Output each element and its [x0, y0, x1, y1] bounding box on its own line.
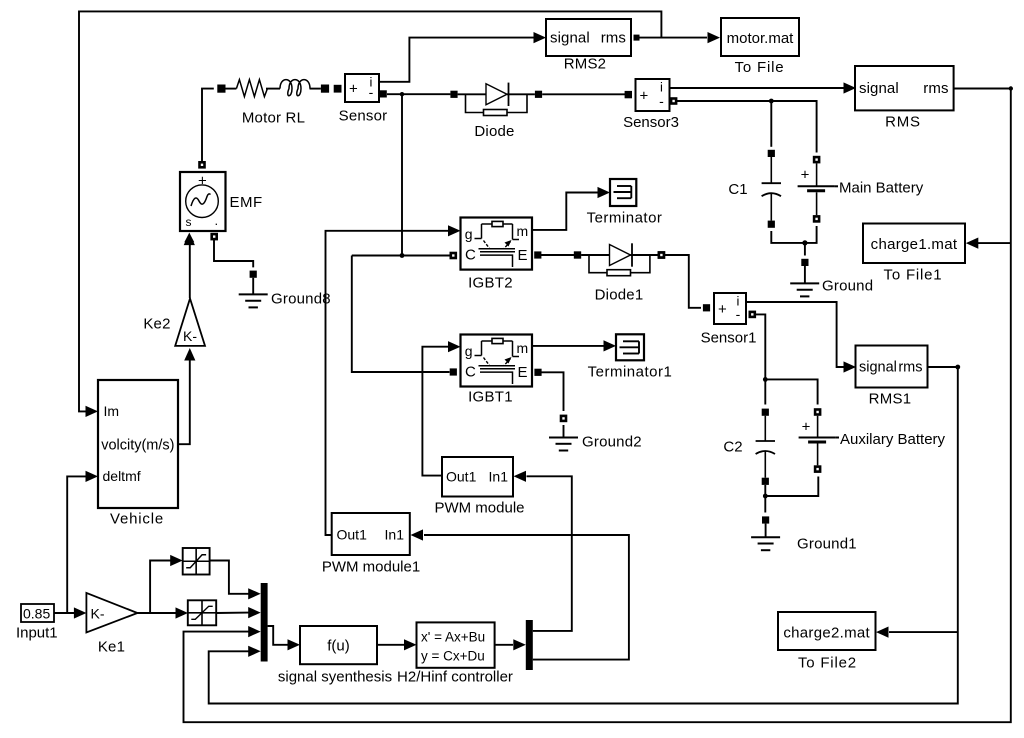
saturation block 1	[188, 600, 216, 625]
svg-text:C: C	[465, 247, 476, 264]
wire C1 bottom / Main Battery bottom to Ground node	[771, 226, 816, 256]
svg-text:Diode: Diode	[474, 123, 514, 140]
svg-text:x' = Ax+Bu: x' = Ax+Bu	[421, 630, 485, 645]
block Sensor3 (current sensor)	[623, 79, 679, 131]
svg-text:Ke1: Ke1	[98, 639, 125, 656]
wire PWM module1 Out1 up to IGBT2 gate	[326, 225, 461, 535]
wire Ke1 output to Saturations	[137, 555, 188, 619]
wire H2/Hinf controller output to demux	[495, 639, 526, 650]
block RMS1 (signal rms)	[856, 346, 928, 408]
wire RMS2 output to motor.mat To File input	[637, 32, 720, 43]
svg-text:IGBT1: IGBT1	[468, 389, 513, 406]
block Vehicle subsystem	[98, 380, 178, 528]
svg-text:Sensor: Sensor	[339, 108, 388, 125]
capacitor C1	[728, 150, 781, 228]
svg-text:motor.mat: motor.mat	[727, 30, 795, 47]
transistor block IGBT2	[461, 218, 533, 292]
block H2/Hinf controller (state-space)	[397, 622, 513, 685]
constant Input1 (0.85)	[16, 604, 58, 641]
svg-text:g: g	[465, 343, 473, 359]
wire Sensor i output to RMS2 input	[379, 32, 546, 82]
svg-text:RMS1: RMS1	[869, 391, 912, 408]
svg-text:rms: rms	[923, 80, 948, 97]
svg-text:EMF: EMF	[230, 194, 263, 211]
wire Sensor1 minus output down to C2 / Auxilary Battery	[749, 311, 818, 405]
svg-text:rms: rms	[898, 360, 922, 376]
svg-text:Ground8: Ground8	[271, 291, 331, 308]
svg-text:+: +	[640, 88, 649, 105]
wire Diode1 output to Sensor1 input	[658, 251, 711, 311]
wire demux output 1 to PWM module In1	[514, 471, 572, 631]
svg-text:PWM module: PWM module	[434, 500, 524, 517]
svg-text:Ground1: Ground1	[797, 536, 857, 553]
svg-text:K-: K-	[91, 605, 105, 621]
svg-text:m: m	[517, 223, 529, 239]
svg-text:-: -	[659, 93, 664, 109]
svg-text:.: .	[215, 213, 219, 228]
svg-text:H2/Hinf controller: H2/Hinf controller	[397, 669, 513, 686]
svg-text:Ground2: Ground2	[582, 434, 642, 451]
svg-text:C2: C2	[723, 439, 742, 456]
block signal syenthesis f(u)	[278, 626, 392, 686]
block To File1 charge1.mat	[863, 224, 965, 284]
svg-text:-: -	[369, 84, 374, 100]
block Sensor (current sensor)	[334, 74, 388, 125]
svg-text:Ke2: Ke2	[143, 316, 170, 333]
block Terminator1	[588, 334, 673, 380]
wire Sensor3 minus output to C1 and Main Battery tops	[677, 99, 817, 153]
svg-text:Main Battery: Main Battery	[839, 180, 924, 197]
svg-text:charge2.mat: charge2.mat	[783, 624, 870, 641]
wire Vehicle velocity output to Ke2 input	[178, 348, 195, 444]
svg-text:+: +	[349, 81, 358, 98]
svg-text:PWM module1: PWM module1	[322, 559, 420, 576]
wire RMS1 output right and down (battery feedback)	[209, 365, 960, 704]
wire Diode output to Sensor3 input	[542, 93, 631, 95]
svg-text:Vehicle: Vehicle	[110, 511, 164, 528]
source EMF (controlled voltage source)	[180, 161, 263, 242]
wire RMS output right and down (right feedback)	[184, 86, 1014, 722]
wire branch into charge2.mat To File2	[876, 627, 958, 638]
mux Mux (bar)	[261, 583, 268, 662]
svg-text:RMS2: RMS2	[564, 56, 606, 73]
transistor block IGBT1	[461, 335, 533, 406]
block RMS2 (signal rms)	[546, 19, 640, 73]
svg-text:Sensor3: Sensor3	[623, 114, 679, 131]
svg-text:Im: Im	[104, 403, 120, 419]
svg-text:Ground: Ground	[822, 278, 873, 295]
ground Ground8	[239, 291, 331, 308]
svg-text:To File: To File	[735, 59, 785, 76]
ground Ground (main)	[790, 259, 873, 297]
wire Sensor minus output to Diode	[380, 90, 451, 97]
svg-text:rms: rms	[601, 30, 626, 47]
svg-text:Motor RL: Motor RL	[242, 110, 305, 127]
resistor+inductor Motor RL	[217, 80, 329, 127]
svg-text:Out1: Out1	[446, 469, 477, 485]
capacitor C2	[723, 409, 775, 485]
svg-text:signal: signal	[550, 30, 590, 47]
ground Ground2	[549, 434, 642, 451]
wire C2 bottom / Auxilary Battery bottom to Ground1 node	[762, 477, 818, 538]
wire f(u) output to H2/Hinf controller	[377, 639, 417, 650]
wire Sensor3 i output to RMS input	[670, 82, 857, 93]
wire branch into charge1.mat To File1	[966, 238, 1011, 249]
gain Ke2 (triangle)	[143, 299, 205, 346]
svg-text:+: +	[801, 167, 810, 184]
svg-text:Terminator1: Terminator1	[588, 364, 673, 381]
wire junction to top feedback into Vehicle Im input	[79, 11, 661, 417]
svg-text:charge1.mat: charge1.mat	[871, 236, 958, 253]
svg-text:signal: signal	[859, 360, 897, 376]
svg-text:+: +	[802, 419, 811, 436]
svg-text:E: E	[518, 364, 528, 381]
wire Saturation output to Mux input 1	[210, 561, 261, 600]
wire EMF top port up to Motor RL	[202, 89, 214, 161]
block Sensor1 (current sensor)	[701, 293, 757, 347]
block PWM module (Out1 In1)	[434, 457, 524, 517]
svg-text:Sensor1: Sensor1	[701, 330, 757, 347]
wire Ke2 output to EMF input	[184, 233, 195, 298]
ground Ground1	[751, 536, 857, 553]
svg-text:E: E	[518, 247, 528, 264]
diode Diode with snubber	[450, 83, 542, 140]
wire IGBT1 E to Ground2	[534, 369, 567, 438]
svg-text:s: s	[186, 215, 192, 229]
svg-text:C: C	[465, 364, 476, 381]
wire Saturation1 output to Mux input 2	[216, 607, 261, 618]
wire demux output 2 to PWM module1 In1	[411, 529, 629, 659]
block To File motor.mat	[721, 18, 799, 76]
wire IGBT1 m output to Terminator1	[532, 340, 616, 351]
wire IGBT2 E to Diode1	[534, 251, 581, 258]
wire IGBT2 m output to Terminator	[532, 187, 610, 230]
wire Sensor1 i output to RMS1 input	[746, 302, 856, 373]
svg-text:deltmf: deltmf	[103, 468, 141, 484]
svg-text:To File1: To File1	[884, 267, 943, 284]
svg-text:-: -	[736, 306, 741, 322]
svg-text:To File2: To File2	[798, 654, 857, 671]
svg-text:Auxilary Battery: Auxilary Battery	[840, 431, 946, 448]
svg-text:f(u): f(u)	[327, 638, 350, 655]
svg-text:+: +	[198, 173, 207, 190]
battery Main Battery	[798, 156, 924, 223]
gain Ke1 (triangle)	[86, 593, 137, 656]
demux Demux (bar)	[526, 620, 533, 670]
diode Diode1 with snubber	[574, 243, 665, 303]
block Terminator	[587, 179, 663, 227]
wire Input1 to Ke1 with branch to Vehicle deltmf	[54, 471, 98, 619]
svg-text:+: +	[718, 301, 727, 318]
svg-text:Terminator: Terminator	[587, 210, 663, 227]
saturation block	[183, 548, 210, 575]
svg-text:0.85: 0.85	[23, 605, 50, 621]
svg-text:y = Cx+Du: y = Cx+Du	[421, 649, 485, 664]
wire Mux output to signal syenthesis f(u)	[268, 626, 300, 650]
svg-text:Input1: Input1	[16, 624, 58, 641]
svg-text:IGBT2: IGBT2	[468, 275, 513, 292]
svg-text:signal: signal	[859, 80, 899, 97]
svg-text:Diode1: Diode1	[595, 287, 644, 304]
wire node row to IGBT2 C and IGBT1 C	[352, 252, 457, 376]
block RMS (signal rms)	[855, 66, 954, 131]
svg-text:K-: K-	[183, 328, 197, 344]
block To File2 charge2.mat	[778, 612, 876, 671]
svg-text:In1: In1	[385, 527, 405, 543]
block PWM module1 (Out1 In1)	[322, 513, 420, 576]
battery Auxilary Battery	[799, 408, 946, 473]
svg-text:g: g	[465, 226, 473, 242]
svg-text:In1: In1	[489, 469, 509, 485]
wire PWM module Out1 up to IGBT1 gate	[422, 341, 460, 476]
wire EMF negative port to Ground8	[214, 238, 257, 294]
svg-text:m: m	[517, 340, 529, 356]
svg-text:volcity(m/s): volcity(m/s)	[101, 438, 174, 454]
svg-text:RMS: RMS	[885, 114, 921, 131]
svg-text:signal syenthesis: signal syenthesis	[278, 669, 392, 686]
svg-text:Out1: Out1	[337, 527, 368, 543]
wire node from Sensor minus down to IGBT row	[401, 94, 403, 255]
svg-text:C1: C1	[728, 181, 747, 198]
